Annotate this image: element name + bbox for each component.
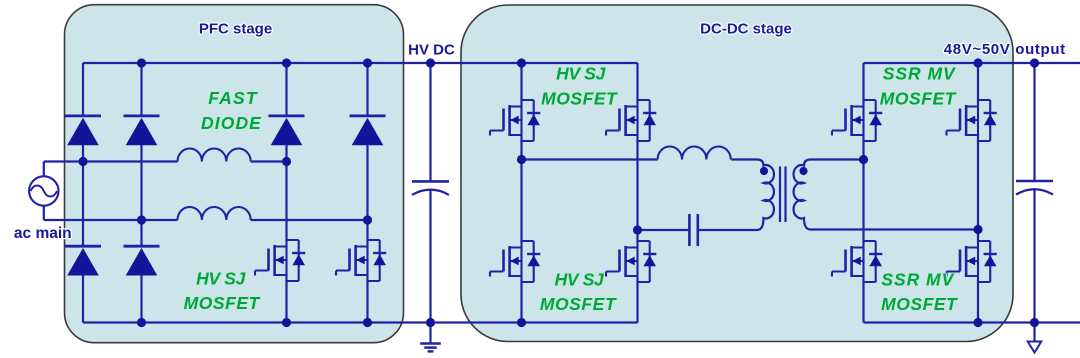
svg-text:MOSFET: MOSFET	[540, 294, 617, 314]
svg-text:FAST: FAST	[208, 88, 258, 108]
svg-text:MOSFET: MOSFET	[184, 293, 261, 313]
svg-text:ac main: ac main	[14, 225, 72, 242]
svg-text:DC-DC stage: DC-DC stage	[700, 21, 792, 38]
svg-text:48V~50V output: 48V~50V output	[944, 41, 1066, 58]
svg-text:SSR MV: SSR MV	[881, 270, 954, 290]
svg-text:PFC stage: PFC stage	[199, 21, 272, 38]
svg-text:HV SJ: HV SJ	[196, 269, 246, 289]
svg-text:HV SJ: HV SJ	[555, 270, 605, 290]
svg-text:MOSFET: MOSFET	[881, 294, 958, 314]
svg-text:MOSFET: MOSFET	[880, 89, 957, 109]
svg-text:SSR MV: SSR MV	[883, 64, 956, 84]
svg-text:HV SJ: HV SJ	[556, 64, 606, 84]
svg-text:HV DC: HV DC	[408, 41, 455, 58]
svg-text:MOSFET: MOSFET	[541, 89, 618, 109]
svg-text:DIODE: DIODE	[201, 113, 262, 133]
